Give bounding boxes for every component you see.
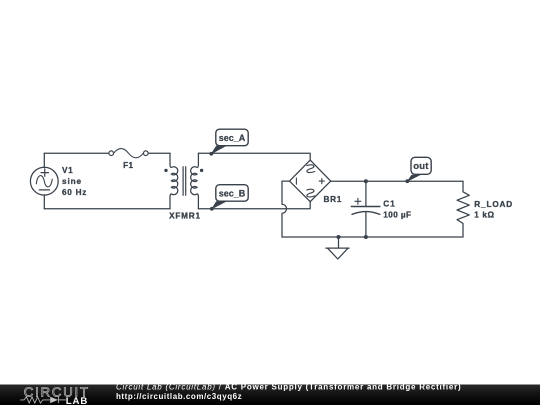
voltage source V1 (30, 153, 58, 209)
svg-text:http://circuitlab.com/c3qyq6z: http://circuitlab.com/c3qyq6z (116, 392, 242, 401)
wire V1 to fuse (44, 152, 109, 154)
transformer polarity dot secondary (200, 169, 203, 172)
svg-text:100 µF: 100 µF (383, 211, 411, 220)
svg-text:sec_A: sec_A (219, 133, 246, 143)
fuse F1 (109, 149, 148, 158)
wire bottom-left rail (44, 208, 170, 210)
junction dot bottom rail at ground (337, 235, 341, 239)
label C1 values (383, 200, 411, 220)
label R_LOAD values (474, 200, 513, 219)
junction dot out rail at C1 (364, 179, 368, 183)
label V1 values (62, 166, 87, 197)
wire fuse to transformer (148, 152, 170, 154)
net flag sec_B (210, 185, 248, 211)
junction dot bottom rail at C1 (364, 235, 368, 239)
wire bridge left corner down with hop over sec_B (282, 181, 290, 237)
svg-text:60 Hz: 60 Hz (62, 188, 87, 197)
transformer XFMR1 core (183, 167, 186, 196)
svg-text:sec_B: sec_B (219, 188, 246, 198)
logo resistor-diode glyph (20, 397, 66, 403)
wire sec_B rail (198, 202, 310, 209)
svg-text:LAB: LAB (66, 396, 88, 405)
transformer XFMR1 secondary winding (191, 153, 199, 209)
wire sec_A rail (198, 153, 310, 160)
net flag sec_A (209, 129, 248, 156)
svg-text:sine: sine (62, 177, 82, 186)
svg-text:1 kΩ: 1 kΩ (474, 210, 494, 219)
transformer polarity dot primary (164, 169, 167, 172)
svg-text:R_LOAD: R_LOAD (474, 200, 513, 209)
wire bottom rail (282, 236, 463, 238)
svg-text:C1: C1 (383, 200, 395, 209)
ground (326, 237, 349, 259)
svg-text:BR1: BR1 (324, 195, 342, 204)
svg-text:F1: F1 (123, 161, 133, 170)
wire out rail (331, 180, 463, 182)
capacitor C1 (351, 181, 380, 237)
svg-text:V1: V1 (62, 166, 73, 175)
resistor R_LOAD (457, 181, 469, 237)
transformer XFMR1 primary winding (170, 153, 178, 209)
svg-text:Circuit Lab (CircuitLab) / AC: Circuit Lab (CircuitLab) / AC Power Supp… (116, 382, 461, 391)
svg-text:XFMR1: XFMR1 (169, 212, 201, 221)
net flag out (405, 157, 431, 183)
bridge rectifier BR1 (290, 160, 331, 202)
svg-text:out: out (413, 161, 429, 172)
